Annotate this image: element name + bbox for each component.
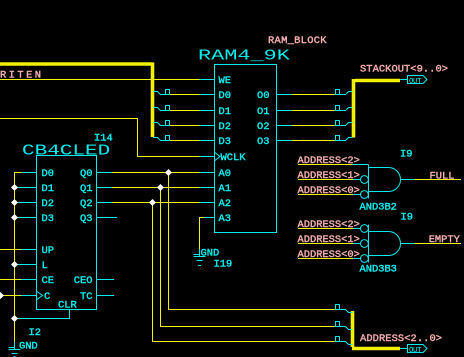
svg-text:I9: I9 <box>400 149 412 161</box>
svg-text:O3: O3 <box>257 136 269 148</box>
svg-text:O0: O0 <box>257 90 269 102</box>
svg-text:D1: D1 <box>219 106 231 118</box>
svg-text:D2: D2 <box>42 198 54 210</box>
svg-text:Q0: Q0 <box>80 168 92 180</box>
svg-text:ADDRESS<2>: ADDRESS<2> <box>298 219 360 231</box>
svg-text:ADDRESS<0>: ADDRESS<0> <box>298 249 360 261</box>
svg-text:CB4CLED: CB4CLED <box>22 143 110 159</box>
svg-text:OUT: OUT <box>409 347 422 355</box>
svg-text:TC: TC <box>80 291 92 303</box>
svg-text:RAM_BLOCK: RAM_BLOCK <box>268 35 327 47</box>
svg-text:WE: WE <box>219 75 231 87</box>
svg-text:Q2: Q2 <box>80 198 92 210</box>
svg-text:O2: O2 <box>257 121 269 133</box>
svg-text:OUT: OUT <box>409 78 422 86</box>
svg-text:Q1: Q1 <box>80 183 92 195</box>
svg-text:CE: CE <box>42 275 54 287</box>
svg-text:RITEN: RITEN <box>0 70 41 82</box>
svg-text:CEO: CEO <box>74 275 93 287</box>
svg-text:D3: D3 <box>219 136 231 148</box>
svg-text:EMPTY: EMPTY <box>429 234 461 246</box>
svg-text:D2: D2 <box>219 121 231 133</box>
svg-text:UP: UP <box>42 245 54 257</box>
svg-text:Q3: Q3 <box>80 213 92 225</box>
svg-text:ADDRESS<1>: ADDRESS<1> <box>298 170 360 182</box>
svg-text:ADDRESS<2>: ADDRESS<2> <box>298 155 360 167</box>
svg-text:A3: A3 <box>219 213 231 225</box>
svg-text:I9: I9 <box>401 212 413 224</box>
svg-text:GND: GND <box>19 341 38 353</box>
svg-text:O1: O1 <box>257 106 269 118</box>
svg-text:AND3B3: AND3B3 <box>360 264 397 276</box>
svg-text:ADDRESS<0>: ADDRESS<0> <box>298 185 360 197</box>
svg-text:I2: I2 <box>29 327 41 339</box>
svg-text:AND3B2: AND3B2 <box>360 202 397 214</box>
svg-text:ADDRESS<1>: ADDRESS<1> <box>298 234 360 246</box>
svg-text:RAM4_9K: RAM4_9K <box>198 48 291 64</box>
svg-text:A1: A1 <box>219 183 231 195</box>
svg-text:A0: A0 <box>219 168 231 180</box>
svg-text:WCLK: WCLK <box>221 152 247 164</box>
svg-text:D1: D1 <box>42 183 54 195</box>
svg-text:I19: I19 <box>214 259 233 271</box>
svg-text:L: L <box>42 260 48 272</box>
svg-text:D0: D0 <box>42 168 54 180</box>
svg-text:STACKOUT<9..0>: STACKOUT<9..0> <box>360 64 448 76</box>
svg-text:C: C <box>44 291 50 303</box>
svg-text:A2: A2 <box>219 198 231 210</box>
svg-text:CLR: CLR <box>58 300 77 312</box>
svg-text:FULL: FULL <box>430 170 455 182</box>
svg-text:D3: D3 <box>42 213 54 225</box>
svg-text:D0: D0 <box>219 90 231 102</box>
svg-text:ADDRESS<2..0>: ADDRESS<2..0> <box>360 333 442 345</box>
